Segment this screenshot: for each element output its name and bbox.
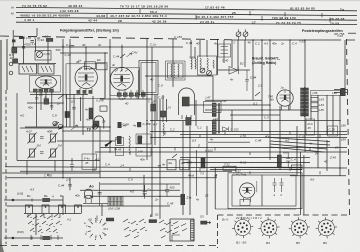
svg-text:C,189: C,189 bbox=[143, 122, 151, 126]
hatch texture on IF transformer windings bbox=[212, 105, 216, 132]
resistor RLW bbox=[43, 198, 50, 201]
IF can interior coils bbox=[171, 63, 179, 78]
wire v short bbox=[51, 92, 53, 110]
tube B1 envelope bbox=[36, 76, 57, 89]
pot circle P5 bbox=[93, 124, 98, 129]
capacitor C2 bbox=[31, 41, 34, 43]
resistor row leads down bbox=[119, 97, 143, 99]
wire v bbox=[26, 161, 28, 175]
svg-text:Ra: Ra bbox=[169, 161, 173, 165]
capacitor C6 bbox=[35, 98, 38, 100]
tube B4 pins bbox=[282, 106, 289, 111]
svg-text:C,44: C,44 bbox=[58, 183, 65, 187]
svg-text:40n: 40n bbox=[28, 105, 33, 109]
wire v bbox=[303, 155, 305, 215]
svg-text:Z4: Z4 bbox=[314, 151, 319, 155]
wire v bbox=[92, 132, 94, 172]
wire v bbox=[34, 39, 36, 52]
audio coupling box J58 bbox=[136, 134, 151, 144]
svg-text:4,5: 4,5 bbox=[30, 187, 34, 191]
small box L83 bbox=[311, 98, 318, 102]
wire v bbox=[151, 47, 153, 215]
wire v bbox=[69, 39, 71, 127]
switch diagram B bbox=[159, 220, 174, 238]
svg-text:Ba: Ba bbox=[44, 194, 48, 198]
resistor row under B3 bbox=[117, 93, 145, 97]
right dashed border bbox=[347, 39, 350, 215]
capacitor C9 bbox=[68, 185, 72, 187]
wire long bus bbox=[150, 120, 340, 122]
wire v bbox=[196, 150, 198, 196]
box around trimmer bbox=[35, 51, 51, 61]
wire bus 1 bbox=[150, 131, 347, 133]
rect in power box bbox=[240, 200, 250, 206]
wire v bbox=[195, 100, 197, 126]
wire bbox=[90, 195, 183, 197]
svg-text:C,4: C,4 bbox=[292, 42, 297, 46]
tube socket B1 - B3 bbox=[232, 217, 253, 238]
tube B3 shield box bbox=[110, 68, 140, 96]
paper grain bbox=[0, 0, 1, 1]
wire v comb bbox=[35, 214, 37, 236]
pot P3 bbox=[28, 148, 37, 159]
tube B4 cathode blob bbox=[284, 95, 286, 100]
svg-text:L88: L88 bbox=[341, 123, 346, 127]
tick on bus bbox=[63, 45, 122, 48]
wire v bbox=[159, 215, 161, 219]
resistor R23 bbox=[201, 158, 205, 168]
wire bbox=[62, 130, 110, 132]
top band line 3 bbox=[16, 17, 357, 20]
tube socket B6 bbox=[316, 217, 337, 238]
osc coil La bbox=[200, 58, 201, 70]
wire v short bbox=[40, 92, 42, 110]
wire v bbox=[109, 39, 111, 152]
coupling box a bbox=[85, 62, 96, 69]
wire v bbox=[231, 40, 233, 67]
right lower box bbox=[306, 119, 314, 135]
hatched tag 2 bbox=[149, 220, 157, 223]
wire v bbox=[206, 126, 208, 215]
capacitor C30 bbox=[286, 152, 290, 167]
wire v bbox=[189, 126, 191, 215]
wire v bbox=[206, 40, 208, 57]
electrolytic C40 inner ellipse bbox=[85, 195, 92, 198]
tube grid dashes B3 bbox=[115, 70, 128, 72]
coil box L1 bbox=[19, 64, 37, 74]
audio coupling box J49 bbox=[136, 148, 151, 157]
wire v bbox=[156, 95, 158, 121]
pot P1 bbox=[28, 133, 37, 144]
resistor R0b bbox=[19, 37, 25, 40]
wire bbox=[50, 237, 63, 239]
wire v bbox=[244, 40, 246, 67]
relay box Ra bbox=[167, 160, 176, 170]
wire pot box top bbox=[20, 127, 62, 129]
switch block contacts bbox=[172, 222, 187, 242]
svg-text:4,0: 4,0 bbox=[130, 189, 134, 193]
wire v bbox=[326, 140, 328, 171]
svg-text:40: 40 bbox=[196, 42, 200, 46]
wire v c42 bbox=[99, 182, 101, 206]
left border dashed lower bbox=[5, 90, 7, 244]
scan edge shadow bottom-left bbox=[0, 238, 4, 252]
svg-text:4c: 4c bbox=[112, 63, 116, 67]
top band line 1 bbox=[16, 7, 357, 10]
resistor dark a bbox=[118, 122, 122, 128]
bandfilter box marks bbox=[221, 47, 229, 54]
trimmer dark strokes bbox=[54, 122, 64, 130]
wire v bbox=[304, 40, 306, 152]
svg-text:2n: 2n bbox=[154, 197, 159, 201]
wire v bbox=[289, 40, 291, 110]
resistor dark c bbox=[117, 136, 122, 144]
wire v bbox=[66, 95, 68, 128]
svg-text:4n: 4n bbox=[162, 162, 166, 166]
scan top edge faint bbox=[0, 0, 360, 1]
trimmer C3 bbox=[37, 52, 43, 58]
wire v bbox=[199, 40, 201, 57]
wire slant 4 bbox=[270, 138, 330, 142]
svg-text:4,5: 4,5 bbox=[264, 42, 268, 46]
output transformer core bbox=[303, 87, 305, 117]
IF can around C159 inner bbox=[141, 63, 156, 93]
small dome tube hatch bbox=[93, 121, 99, 127]
wire v bbox=[326, 95, 328, 135]
wire slant 3 bbox=[270, 147, 324, 152]
osc coil Lc bbox=[213, 60, 214, 68]
svg-text:2,5: 2,5 bbox=[257, 83, 262, 87]
resistor stack b bbox=[116, 148, 124, 156]
resistor R9 bbox=[65, 112, 69, 118]
wire v bbox=[73, 95, 75, 128]
pot P2 bbox=[49, 133, 58, 144]
osc trimmer 1 bbox=[200, 68, 205, 73]
wire long bbox=[7, 177, 217, 179]
switch arrow S4 bbox=[106, 142, 111, 145]
resistor R21 bbox=[151, 104, 156, 111]
antenna terminal A bbox=[9, 62, 13, 66]
wire bbox=[18, 63, 56, 65]
capacitor C1 bbox=[22, 47, 25, 49]
wire v bbox=[237, 40, 239, 70]
feed resistor box b bbox=[292, 165, 303, 169]
trimmer above chassis 2 bbox=[243, 32, 248, 37]
svg-text:40n: 40n bbox=[75, 194, 80, 198]
svg-text:4n: 4n bbox=[214, 42, 218, 46]
wire v bbox=[12, 39, 14, 58]
svg-text:C,52: C,52 bbox=[299, 134, 306, 138]
wire bbox=[7, 205, 170, 207]
svg-text:4x: 4x bbox=[133, 123, 137, 127]
keyboard comb bbox=[26, 205, 82, 214]
wire bbox=[2, 172, 100, 174]
wire bbox=[100, 183, 180, 185]
feed resistor box a bbox=[223, 166, 236, 170]
electrolytic base line bbox=[83, 202, 108, 204]
electrolytic C40 legs bbox=[86, 198, 91, 203]
trimmer leads bbox=[239, 29, 246, 40]
resistor R1 bbox=[12, 48, 17, 53]
wire v bbox=[296, 126, 298, 176]
chassis dashed line bbox=[0, 36, 232, 40]
diode D2 bbox=[223, 127, 229, 132]
svg-text:Bu: Bu bbox=[60, 194, 64, 198]
trimmer C3 arrow bbox=[37, 51, 43, 57]
resistor R8 bbox=[44, 99, 49, 105]
svg-text:4b: 4b bbox=[76, 60, 80, 64]
switch arrows bbox=[58, 54, 260, 158]
coupling box b bbox=[97, 63, 108, 70]
coil box L1 marks bbox=[22, 66, 33, 72]
resistor R0a bbox=[12, 40, 16, 43]
top band line 2 bbox=[16, 13, 357, 16]
wire v bbox=[159, 99, 161, 215]
resistor R2 bbox=[13, 59, 18, 63]
wire v bbox=[231, 110, 233, 132]
osc coil Lb bbox=[207, 58, 208, 70]
coil box L2 bbox=[38, 64, 54, 74]
right mid box bbox=[328, 126, 338, 136]
trimmer arrow 2 bbox=[243, 32, 248, 37]
wire bbox=[60, 52, 108, 54]
wire v bbox=[104, 53, 106, 98]
tube B2 electrodes bbox=[78, 66, 94, 85]
tick LW bbox=[31, 198, 33, 239]
wire v top-left 2 bbox=[36, 28, 38, 36]
chassis bus solid bbox=[232, 39, 332, 41]
trimmer pot small b bbox=[58, 124, 62, 128]
osc trimmer 2 arrow bbox=[207, 71, 212, 76]
osc trimmer 1 arrow bbox=[200, 68, 205, 73]
wire v bbox=[143, 175, 145, 196]
cap pair a bbox=[273, 178, 277, 192]
wire v bbox=[99, 126, 101, 178]
svg-text:Z1a: Z1a bbox=[186, 195, 192, 199]
dashed box top edge bbox=[218, 214, 351, 216]
IF can T1 outer bbox=[166, 61, 186, 80]
trimmer above chassis 1 bbox=[236, 32, 241, 37]
tube B3b inner bar bbox=[182, 97, 189, 106]
rectifier cathode blob bbox=[246, 188, 248, 193]
tube B3b envelope dome bbox=[179, 88, 195, 115]
capacitor C10 bbox=[245, 70, 249, 91]
wire v bbox=[269, 40, 271, 160]
tube B4 envelope bbox=[277, 90, 293, 106]
capacitor C7 bbox=[50, 106, 53, 108]
IF can T1 inner bbox=[168, 63, 184, 78]
wire v long bbox=[62, 39, 64, 178]
wire kw line bbox=[4, 237, 42, 239]
svg-text:2n: 2n bbox=[56, 101, 61, 105]
svg-text:40: 40 bbox=[150, 77, 154, 81]
wire power feed b bbox=[210, 169, 302, 171]
svg-text:40n: 40n bbox=[265, 134, 270, 138]
wire bus 2 bbox=[180, 134, 347, 136]
wire v bbox=[47, 39, 49, 64]
wire v bbox=[317, 95, 319, 168]
capacitor C43 bbox=[70, 158, 74, 171]
wire v bbox=[80, 97, 82, 121]
wire v bbox=[162, 95, 164, 122]
cap pair b bbox=[280, 178, 284, 192]
wire bbox=[80, 189, 180, 191]
TV arrow bbox=[71, 125, 78, 130]
wire v bbox=[344, 40, 346, 90]
osc enclosure bbox=[198, 56, 217, 75]
detector rect bbox=[100, 106, 107, 111]
wire bbox=[27, 102, 63, 104]
svg-text:40: 40 bbox=[324, 159, 328, 163]
svg-text:4,0: 4,0 bbox=[20, 113, 24, 117]
resistor Z1a dark bbox=[181, 194, 186, 205]
terminal strip long box bbox=[311, 90, 341, 95]
svg-text:10A | 10A: 10A | 10A bbox=[108, 207, 120, 211]
wire v bbox=[69, 178, 71, 191]
wire v bbox=[23, 39, 25, 64]
svg-text:44,08: 44,08 bbox=[96, 14, 105, 18]
wire v bbox=[146, 39, 148, 160]
capacitor C42 bbox=[98, 192, 102, 194]
wire bbox=[218, 69, 250, 71]
junction dot LW bbox=[12, 199, 14, 201]
wire slant 2 bbox=[270, 144, 327, 149]
wire v top-left bbox=[12, 30, 14, 40]
speaker block bbox=[341, 88, 345, 95]
CAV arrow bbox=[127, 53, 132, 57]
osc coil Le bbox=[195, 58, 196, 69]
power supply box bbox=[232, 175, 296, 206]
svg-text:C,4: C,4 bbox=[105, 162, 110, 166]
svg-text:4,0: 4,0 bbox=[310, 177, 314, 181]
small box L85 bbox=[311, 108, 318, 112]
tube B2 shield box bbox=[66, 64, 105, 99]
svg-text:45x8: 45x8 bbox=[188, 174, 195, 178]
contact cluster left bbox=[27, 214, 62, 240]
hatch texture on output transformer bbox=[301, 91, 309, 112]
wire bbox=[30, 94, 88, 96]
wire pot box bottom bbox=[17, 160, 100, 162]
wire bbox=[183, 104, 270, 106]
IF transformer T2 core bbox=[218, 103, 219, 134]
keyboard leads bbox=[28, 214, 60, 218]
svg-text:Bo: Bo bbox=[27, 194, 31, 198]
battery box bbox=[82, 154, 97, 170]
capacitor C41 bbox=[165, 184, 169, 197]
tube B1 cathode blob bbox=[45, 79, 47, 84]
wire v bbox=[217, 39, 219, 75]
svg-text:C,45: C,45 bbox=[167, 201, 174, 205]
svg-text:40n: 40n bbox=[272, 42, 277, 46]
wire bus 3 bbox=[150, 137, 347, 139]
svg-text:C,44: C,44 bbox=[250, 75, 257, 79]
svg-text:4n: 4n bbox=[98, 43, 102, 47]
svg-text:40n: 40n bbox=[140, 157, 145, 161]
capacitor C11 bbox=[158, 166, 161, 168]
coil L11 bbox=[129, 136, 130, 153]
IF can box mid bbox=[204, 102, 222, 113]
wire v bbox=[300, 152, 302, 215]
resistor stack a bbox=[116, 138, 124, 146]
svg-text:4,0: 4,0 bbox=[86, 117, 90, 121]
capacitor C8 bbox=[72, 108, 76, 110]
tube B3 electrodes bbox=[114, 67, 131, 86]
IF transformer T2 winding b bbox=[212, 120, 216, 134]
output transformer winding b bbox=[305, 88, 308, 116]
trimmer arrow 1 bbox=[236, 32, 241, 37]
mark right edge bbox=[348, 32, 356, 34]
tube B2 pins bbox=[80, 88, 92, 95]
wire v power bbox=[261, 175, 263, 206]
dashed box left edge bbox=[217, 215, 219, 248]
resistor R30 bbox=[277, 155, 281, 167]
bandfilter box bbox=[218, 44, 231, 57]
wire v bbox=[54, 161, 56, 172]
tube B2 cathode blob bbox=[85, 74, 88, 80]
svg-text:4Ω: 4Ω bbox=[181, 161, 185, 165]
hatched tag 1 bbox=[106, 218, 114, 221]
wire bus 6 bbox=[5, 167, 347, 168]
wire bbox=[205, 99, 262, 101]
relay box Rb bbox=[180, 160, 189, 170]
svg-text:2,5: 2,5 bbox=[239, 134, 244, 138]
wire v short bbox=[36, 92, 38, 127]
tube B3 cathode blob bbox=[120, 76, 123, 82]
switch diagram A bbox=[123, 219, 147, 238]
svg-text:C,2: C,2 bbox=[170, 127, 175, 131]
left border bbox=[6, 39, 8, 90]
resistor row under B2 bbox=[77, 90, 92, 94]
wire v bbox=[190, 40, 192, 58]
svg-text:0,5: 0,5 bbox=[192, 138, 196, 142]
pot cluster caps bbox=[40, 137, 44, 154]
wire v bbox=[182, 121, 184, 216]
svg-text:4x: 4x bbox=[196, 197, 200, 201]
wire bus 5 bbox=[95, 151, 347, 153]
mains transformer winding block bbox=[108, 197, 123, 206]
svg-text:C,08: C,08 bbox=[123, 123, 130, 127]
svg-text:C,44: C,44 bbox=[186, 41, 193, 45]
resistor R3 bbox=[46, 38, 52, 41]
wafer stub bbox=[96, 216, 98, 221]
wire v power left bbox=[214, 168, 216, 209]
top band line 4 bbox=[16, 22, 357, 24]
wire v bbox=[154, 95, 156, 145]
wire power feed a bbox=[210, 166, 302, 168]
wire bus extra bbox=[183, 162, 310, 164]
scan edge shadow left bbox=[0, 40, 2, 252]
wire slant 1 bbox=[270, 141, 330, 145]
svg-text:C,8: C,8 bbox=[52, 113, 57, 117]
switch block comb strip bbox=[191, 220, 194, 240]
capacitor Cr bbox=[143, 185, 147, 199]
svg-text:C,48: C,48 bbox=[255, 138, 262, 142]
resistor R20 bbox=[186, 118, 191, 126]
wire v bbox=[212, 76, 214, 102]
wire v bbox=[92, 96, 94, 132]
svg-text:4n: 4n bbox=[210, 137, 214, 141]
tube B3b pins bbox=[182, 115, 191, 120]
wire v bbox=[85, 47, 87, 67]
wire v bbox=[279, 106, 281, 170]
tube B4 electrodes bbox=[280, 90, 291, 102]
trimmer pot small a arrow bbox=[53, 121, 57, 125]
wire bbox=[50, 199, 63, 201]
resistor dark d bbox=[138, 136, 143, 145]
svg-text:E2: E2 bbox=[240, 62, 244, 66]
tube B1 shield box bbox=[30, 76, 61, 93]
switch wafer S1 bbox=[86, 218, 108, 240]
